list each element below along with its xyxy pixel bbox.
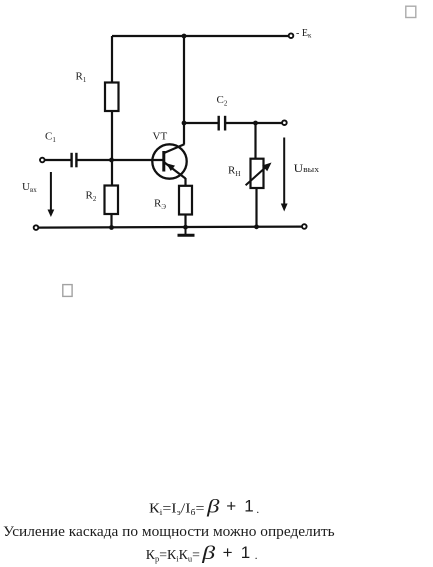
- wire: emitter diagonal: [164, 162, 186, 179]
- svg-text:VT: VT: [153, 131, 168, 143]
- terminal: bottom right: [302, 224, 307, 229]
- resistor RЭ: [179, 186, 192, 215]
- terminal: supply -Eк: [289, 33, 294, 38]
- wire: top supply rail: [112, 35, 289, 37]
- svg-text:C2: C2: [217, 94, 228, 108]
- resistor R1: [105, 83, 119, 112]
- wire: input to C1: [45, 159, 72, 161]
- wire: R1 top: [111, 36, 113, 83]
- capacitor C1: [72, 153, 77, 168]
- svg-text:R2: R2: [86, 190, 97, 204]
- wire: emitter vertical to RЭ: [184, 178, 186, 186]
- wire: bottom rail: [38, 227, 302, 228]
- node: C2 left junction: [182, 121, 187, 126]
- node: bottom rail RН: [254, 224, 259, 229]
- capacitor C2: [219, 116, 225, 131]
- svg-text:Усиление каскада по мощности м: Усиление каскада по мощности можно опред…: [3, 524, 335, 540]
- wire: RН top: [254, 123, 256, 159]
- wire: RЭ bottom: [184, 215, 186, 229]
- formula line 1: Ki=Iэ/Iб= β + 1 .: [149, 497, 259, 518]
- svg-text:- Eк: - Eк: [296, 28, 312, 40]
- svg-text:1: 1: [241, 543, 250, 562]
- svg-text:1: 1: [244, 497, 253, 516]
- resistor R2: [105, 186, 119, 215]
- terminal: input: [40, 158, 45, 163]
- svg-text:+: +: [223, 543, 233, 562]
- svg-text:.: .: [255, 548, 258, 562]
- wire: C1 to base: [77, 159, 163, 161]
- node: base / divider junction: [109, 158, 114, 163]
- wire: collector diagonal into transistor: [164, 144, 184, 153]
- node: bottom rail R2: [109, 225, 114, 230]
- svg-text:RЭ: RЭ: [154, 198, 166, 212]
- formula line 3: Кр=КiКu= β + 1 .: [146, 543, 258, 564]
- node: C2 / RН junction: [253, 121, 258, 126]
- placeholder box glyph mid left: [63, 285, 72, 297]
- svg-text:β: β: [201, 543, 216, 564]
- svg-text:Uвых: Uвых: [294, 163, 320, 175]
- node: top rail / collector junction: [182, 34, 187, 39]
- svg-text:C1: C1: [45, 131, 56, 145]
- svg-text:+: +: [226, 497, 236, 516]
- wire: collector vertical: [183, 36, 185, 145]
- wire: C2 left segment: [184, 122, 218, 124]
- wire: RН bottom: [255, 188, 257, 227]
- svg-text:Кi=Iэ/Iб=: Кi=Iэ/Iб=: [149, 501, 205, 518]
- wire: R2 bottom: [110, 214, 112, 228]
- placeholder box glyph top right: [406, 6, 416, 17]
- svg-text:Кр=КiКu=: Кр=КiКu=: [146, 547, 200, 564]
- arrow Uвх: [48, 172, 55, 217]
- svg-text:.: .: [256, 502, 259, 516]
- ground: [178, 228, 195, 236]
- resistor RН (variable load): [246, 159, 272, 188]
- wire: R1 bottom to base junction to R2 top: [111, 111, 113, 186]
- arrow Uвых: [281, 138, 288, 212]
- terminal: bottom left: [34, 225, 39, 230]
- terminal: output: [282, 120, 287, 125]
- wire: C2 right segment to output: [226, 122, 283, 124]
- svg-text:Uвх: Uвх: [22, 181, 37, 194]
- svg-text:β: β: [206, 497, 220, 518]
- svg-text:RН: RН: [228, 165, 240, 179]
- node: bottom rail RЭ: [183, 225, 188, 230]
- transistor VT: [152, 144, 186, 178]
- svg-text:R1: R1: [76, 71, 87, 85]
